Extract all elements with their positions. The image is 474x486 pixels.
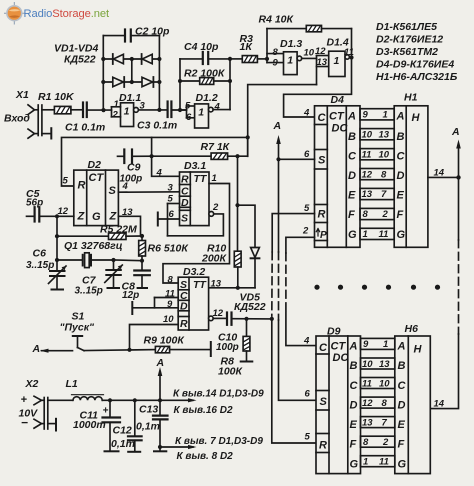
svg-text:G: G xyxy=(348,229,357,241)
svg-text:К выв.16 D2: К выв.16 D2 xyxy=(174,405,233,416)
chip D3.2 xyxy=(178,277,208,330)
gate D1.1 xyxy=(121,103,139,127)
svg-text:R9 100К: R9 100К xyxy=(144,335,186,347)
svg-text:X2: X2 xyxy=(25,378,39,390)
wire R4 right xyxy=(322,29,352,58)
wire node up to long wire xyxy=(151,137,153,156)
svg-text:13: 13 xyxy=(379,129,390,140)
svg-text:14: 14 xyxy=(434,399,445,410)
svg-text:1000m: 1000m xyxy=(73,419,106,431)
svg-text:D2: D2 xyxy=(88,159,102,171)
svg-text:1: 1 xyxy=(363,457,368,468)
capacitor C12 xyxy=(128,400,142,452)
svg-text:1: 1 xyxy=(334,55,340,67)
wire D1.1 out xyxy=(138,109,166,111)
svg-text:D: D xyxy=(350,399,358,411)
wire right A rail lower xyxy=(430,334,458,409)
wire feedback D1.4 input down xyxy=(248,85,317,157)
svg-text:D: D xyxy=(398,399,406,411)
wire C10 to R net xyxy=(232,318,272,320)
wire VD5 top xyxy=(238,205,256,247)
wire C-D fork with bar xyxy=(132,298,178,315)
node C11 xyxy=(108,398,112,402)
wire D4 S pin xyxy=(279,158,315,160)
terminal bar X1 bottom xyxy=(50,128,52,138)
svg-text:7: 7 xyxy=(382,417,388,428)
svg-text:S: S xyxy=(320,396,328,408)
capacitor C3 xyxy=(168,102,172,118)
svg-text:C12: C12 xyxy=(113,425,132,437)
node feedback-long wire xyxy=(246,135,250,139)
svg-text:D: D xyxy=(181,197,189,209)
svg-text:0,1m: 0,1m xyxy=(136,421,160,433)
svg-text:DC: DC xyxy=(332,123,349,135)
svg-text:C: C xyxy=(319,342,328,354)
svg-text:4: 4 xyxy=(214,102,221,113)
svg-text:13: 13 xyxy=(317,57,328,68)
wire D input fork xyxy=(168,204,180,236)
svg-text:C: C xyxy=(398,380,407,392)
node bridge br xyxy=(157,80,161,84)
svg-text:CТ: CТ xyxy=(329,111,345,123)
wire R rail dashed xyxy=(271,252,273,316)
svg-text:F: F xyxy=(398,439,405,451)
svg-text:13: 13 xyxy=(362,417,373,428)
svg-text:10: 10 xyxy=(379,378,390,389)
chip D3.1 xyxy=(180,172,210,226)
wire C4/R2 left rail xyxy=(179,59,181,110)
svg-text:S: S xyxy=(318,155,326,167)
inversion circle D3.1 pin2 xyxy=(209,212,214,217)
svg-text:D: D xyxy=(180,301,188,313)
svg-text:R: R xyxy=(181,174,189,186)
svg-text:S: S xyxy=(181,213,188,225)
wire pin13 D3.2 xyxy=(209,287,255,289)
wire A arrow power xyxy=(158,367,163,400)
wire long reset net xyxy=(62,137,248,186)
node reset rail xyxy=(270,317,274,321)
wire D4 P pin xyxy=(286,237,315,253)
svg-text:C: C xyxy=(348,151,357,163)
wire R rail to D9 R xyxy=(272,319,316,443)
svg-text:1: 1 xyxy=(114,99,119,110)
svg-text:3..15p: 3..15p xyxy=(26,260,54,271)
resistor R3 xyxy=(242,56,257,63)
wire R2 left xyxy=(180,80,200,82)
svg-text:1: 1 xyxy=(124,106,130,118)
svg-text:Н: Н xyxy=(414,344,423,356)
svg-text:10: 10 xyxy=(362,359,373,370)
svg-text:3: 3 xyxy=(168,183,174,194)
svg-text:Н1-Н6-АЛС321Б: Н1-Н6-АЛС321Б xyxy=(376,71,458,83)
svg-text:Н: Н xyxy=(412,112,421,124)
svg-text:56p: 56p xyxy=(26,198,43,209)
svg-text:B: B xyxy=(397,131,405,143)
svg-text:200К: 200К xyxy=(201,253,228,265)
svg-text:2: 2 xyxy=(382,209,389,220)
svg-text:R: R xyxy=(319,440,327,452)
wire R4 top xyxy=(267,28,306,30)
svg-text:F: F xyxy=(397,209,404,221)
wire right A rail arrow xyxy=(456,140,461,241)
arrow to pin14 supply xyxy=(188,398,197,402)
wire R2 right xyxy=(214,80,230,82)
wire power rail xyxy=(103,399,194,401)
node R6-C8 xyxy=(140,259,144,263)
svg-text:R6 510К: R6 510К xyxy=(148,243,190,255)
svg-text:10: 10 xyxy=(362,129,373,140)
pin fork D1.2 inputs xyxy=(180,106,195,118)
svg-text:12p: 12p xyxy=(122,290,139,301)
capacitor C8 xyxy=(134,261,150,288)
resistor R5 xyxy=(109,233,127,240)
wire R9 right with bar xyxy=(170,342,211,356)
chip D9 xyxy=(316,336,361,474)
output letters D4 xyxy=(347,111,357,242)
svg-text:КД522: КД522 xyxy=(64,54,96,66)
svg-text:4: 4 xyxy=(303,108,310,119)
svg-text:D4-D9-К176ИЕ4: D4-D9-К176ИЕ4 xyxy=(376,59,454,71)
svg-text:2: 2 xyxy=(302,226,309,237)
pin fork D1.1 inputs xyxy=(112,107,121,117)
capacitor C13 xyxy=(153,400,168,451)
svg-text:R: R xyxy=(78,180,86,192)
node R8 top xyxy=(244,317,248,321)
svg-text:R: R xyxy=(180,318,188,330)
capacitor C11 xyxy=(103,400,121,451)
svg-text:A: A xyxy=(156,357,165,369)
parts list xyxy=(376,21,458,83)
svg-text:11: 11 xyxy=(362,378,372,389)
svg-text:B: B xyxy=(350,360,358,372)
svg-text:C6: C6 xyxy=(33,248,47,260)
svg-text:8: 8 xyxy=(382,398,388,409)
node C13 xyxy=(158,398,162,402)
svg-text:CТ: CТ xyxy=(331,341,347,353)
svg-text:C: C xyxy=(397,151,406,163)
svg-text:100p: 100p xyxy=(216,342,239,353)
svg-text:13: 13 xyxy=(211,279,222,290)
connector X2 xyxy=(34,396,48,429)
diode VD5 xyxy=(251,248,260,288)
diode VD4 xyxy=(142,77,153,87)
node D1.4 out xyxy=(349,55,353,59)
svg-text:10: 10 xyxy=(304,48,315,59)
svg-text:Н1: Н1 xyxy=(404,92,418,104)
svg-text:12: 12 xyxy=(58,206,69,217)
trimmer C6 xyxy=(49,260,67,290)
node bridge tl xyxy=(101,57,105,61)
resistor R10 xyxy=(234,205,241,288)
node A rail D4 S xyxy=(276,157,280,161)
svg-text:C: C xyxy=(318,112,327,124)
quartz Q1 xyxy=(83,253,114,268)
resistor R2 xyxy=(200,78,214,85)
capacitor C1 xyxy=(83,103,87,118)
node C1-bridge xyxy=(101,108,105,112)
connector X1 xyxy=(28,105,42,138)
node C12 xyxy=(133,398,137,402)
svg-text:К выв. 8 D2: К выв. 8 D2 xyxy=(177,451,234,462)
svg-text:ТТ: ТТ xyxy=(194,173,208,185)
chip D4 xyxy=(315,106,361,248)
node quartz left xyxy=(55,258,59,262)
svg-text:A: A xyxy=(273,120,282,132)
svg-text:E: E xyxy=(398,419,406,431)
pin fork D1.3 inputs xyxy=(267,29,284,63)
capacitor C10 xyxy=(227,313,232,325)
wire pin2 feedback xyxy=(168,214,224,236)
continuation dots xyxy=(314,285,440,290)
svg-text:C3 0.1m: C3 0.1m xyxy=(137,120,177,132)
node C4-R3 xyxy=(228,57,232,61)
svg-text:A: A xyxy=(397,341,406,353)
node R10 bottom xyxy=(236,286,240,290)
svg-text:D: D xyxy=(397,170,405,182)
svg-text:X1: X1 xyxy=(15,89,29,101)
svg-text:1: 1 xyxy=(383,339,388,350)
node C9-R7 xyxy=(150,154,154,158)
svg-text:1: 1 xyxy=(363,229,368,240)
trimmer C7 xyxy=(105,260,123,288)
svg-text:Z: Z xyxy=(77,211,86,223)
svg-text:13: 13 xyxy=(122,207,133,218)
wire D4 clock feed xyxy=(284,58,352,118)
wire osc left rail xyxy=(56,216,58,260)
svg-text:D: D xyxy=(348,170,356,182)
svg-text:9: 9 xyxy=(363,110,369,121)
output letters D9 xyxy=(349,341,359,471)
svg-text:D1-К561ЛЕ5: D1-К561ЛЕ5 xyxy=(376,21,437,33)
svg-text:A: A xyxy=(347,111,356,123)
svg-text:D3.1: D3.1 xyxy=(184,160,206,172)
svg-text:6: 6 xyxy=(304,149,310,160)
gate D1.2 xyxy=(195,104,214,128)
svg-text:12: 12 xyxy=(362,398,373,409)
node C7 top xyxy=(111,258,115,262)
node R7-R10 xyxy=(235,154,239,158)
svg-text:R7 1К: R7 1К xyxy=(201,141,231,153)
wire bridge left rail xyxy=(102,36,104,111)
svg-text:R4 10К: R4 10К xyxy=(259,14,295,26)
svg-text:B: B xyxy=(398,360,406,372)
svg-text:C4 10p: C4 10p xyxy=(184,41,219,53)
node R2 right xyxy=(228,79,232,83)
diode VD2 xyxy=(142,54,153,64)
svg-text:+: + xyxy=(21,394,28,406)
svg-text:F: F xyxy=(350,439,357,451)
svg-text:D3-К561ТМ2: D3-К561ТМ2 xyxy=(376,46,438,58)
wire arrow to pin7 common xyxy=(160,445,197,449)
node R2 left xyxy=(178,79,182,83)
wire Z12 input xyxy=(57,215,74,217)
svg-text:Z: Z xyxy=(109,211,118,223)
svg-text:6: 6 xyxy=(305,389,311,400)
svg-text:"Пуск": "Пуск" xyxy=(60,322,96,334)
wire R7 right xyxy=(228,137,248,156)
capacitor C9 xyxy=(124,150,132,164)
resistor R1 xyxy=(54,106,71,113)
node pin10 junction xyxy=(127,348,131,352)
wire A arrow left xyxy=(40,349,73,353)
wire D1.2 out xyxy=(213,109,230,111)
svg-text:10: 10 xyxy=(379,149,390,160)
node R5 left xyxy=(55,234,59,238)
svg-text:D3.2: D3.2 xyxy=(183,266,205,278)
svg-text:RadioStorage.net: RadioStorage.net xyxy=(24,8,110,20)
svg-text:E: E xyxy=(348,190,356,202)
wire A rail arrow mid xyxy=(276,135,281,252)
svg-text:R5 22М: R5 22М xyxy=(100,224,137,236)
svg-text:A: A xyxy=(451,126,460,138)
node bridge bl xyxy=(101,80,105,84)
svg-text:9: 9 xyxy=(273,58,279,69)
svg-text:8: 8 xyxy=(363,209,369,220)
node bridge bm xyxy=(130,80,134,84)
svg-text:100К: 100К xyxy=(218,366,244,378)
svg-text:Вход: Вход xyxy=(4,113,30,125)
capacitor C4 xyxy=(203,52,208,64)
svg-text:C: C xyxy=(350,380,359,392)
node R3-D1.3 xyxy=(265,57,269,61)
svg-text:11: 11 xyxy=(362,149,372,160)
chip D2 xyxy=(74,170,119,226)
svg-text:R2 100К: R2 100К xyxy=(184,68,226,80)
svg-text:D2-К176ИЕ12: D2-К176ИЕ12 xyxy=(376,34,443,46)
svg-text:14: 14 xyxy=(434,168,445,179)
wire R input from switch xyxy=(130,325,179,350)
svg-text:−: − xyxy=(21,416,28,430)
svg-text:A: A xyxy=(396,111,405,123)
svg-text:E: E xyxy=(350,419,358,431)
wire bridge mid rail xyxy=(131,59,133,82)
wire bridge top row xyxy=(103,58,159,60)
svg-text:R1 10K: R1 10K xyxy=(38,91,75,103)
resistor R9 xyxy=(155,346,169,352)
svg-text:C2 10p: C2 10p xyxy=(135,26,170,38)
wire pin12 to C10 xyxy=(213,317,226,319)
node R10 top xyxy=(235,203,239,207)
svg-text:1: 1 xyxy=(287,55,293,67)
switch S1 xyxy=(73,336,84,351)
svg-text:12: 12 xyxy=(315,46,326,57)
svg-text:13: 13 xyxy=(362,189,373,200)
svg-text:КД522: КД522 xyxy=(234,301,266,313)
wire quartz row xyxy=(57,259,82,261)
wire R1 to C1 xyxy=(71,109,82,111)
svg-text:2: 2 xyxy=(382,437,389,448)
svg-text:8: 8 xyxy=(363,437,369,448)
svg-text:F: F xyxy=(348,209,355,221)
svg-text:S: S xyxy=(109,185,117,197)
node bridge tm xyxy=(130,57,134,61)
svg-text:5: 5 xyxy=(185,101,191,112)
svg-text:+: + xyxy=(103,406,109,417)
wire C4 left xyxy=(180,58,202,60)
svg-text:6: 6 xyxy=(186,112,192,123)
display H1 xyxy=(394,106,428,248)
wire X1 to R1 xyxy=(42,109,55,111)
capacitor C2 xyxy=(125,30,131,42)
svg-text:2: 2 xyxy=(112,110,119,121)
wire R7 left xyxy=(152,155,212,157)
wire X2 plus to L1 xyxy=(48,399,73,401)
wire C3 to D1.2 xyxy=(171,109,186,111)
svg-text:R: R xyxy=(318,209,326,221)
inductor L1 xyxy=(72,395,104,401)
svg-text:К выв. 7 D1,D3-D9: К выв. 7 D1,D3-D9 xyxy=(175,436,263,447)
svg-text:D4: D4 xyxy=(331,94,345,106)
svg-text:A: A xyxy=(32,343,41,355)
terminal bar X2 minus xyxy=(55,419,57,431)
capacitor C5 xyxy=(27,207,58,221)
svg-text:D9: D9 xyxy=(327,326,341,338)
svg-text:5: 5 xyxy=(63,176,69,187)
svg-text:A: A xyxy=(349,341,358,353)
diode VD3 xyxy=(113,77,124,87)
resistor R4 xyxy=(306,25,321,31)
svg-text:4: 4 xyxy=(303,336,310,347)
node C3-D1.2 xyxy=(178,108,182,112)
wire X1 bottom to bar xyxy=(42,133,51,135)
wire P rail to D9 C xyxy=(286,312,316,346)
wire C4 right xyxy=(208,58,230,60)
node bridge tr xyxy=(157,57,161,61)
segment wires D4-H1 xyxy=(360,109,394,240)
wire R3 left xyxy=(230,58,242,60)
svg-text:Q1 32768гц: Q1 32768гц xyxy=(64,240,123,252)
svg-text:1: 1 xyxy=(383,110,388,121)
node R5-R6 xyxy=(140,234,144,238)
wire D1.2 out rail xyxy=(229,59,231,110)
wire R5 right xyxy=(126,235,142,237)
wire C9 stub xyxy=(118,155,124,157)
node right A rail xyxy=(456,175,460,179)
svg-text:11: 11 xyxy=(379,229,389,240)
pin 4 D2 wire to D3.1 C xyxy=(118,191,179,193)
svg-text:C9: C9 xyxy=(127,162,141,174)
svg-text:C1 0.1m: C1 0.1m xyxy=(65,122,105,134)
wire R3 right xyxy=(257,58,267,60)
diode VD1 xyxy=(113,54,124,64)
svg-text:G: G xyxy=(350,459,359,471)
svg-text:D1.3: D1.3 xyxy=(280,38,302,50)
node common arrow xyxy=(158,445,162,449)
svg-text:100p: 100p xyxy=(120,174,143,185)
svg-text:C13: C13 xyxy=(139,404,158,416)
svg-text:10: 10 xyxy=(163,314,174,325)
wire D4 R pin xyxy=(272,214,314,252)
svg-text:C: C xyxy=(181,186,189,198)
pin fork D1.4 inputs xyxy=(317,56,329,85)
svg-text:8: 8 xyxy=(273,47,279,58)
svg-text:DC: DC xyxy=(333,352,350,364)
wire node down to R pin D3.1 xyxy=(152,156,180,176)
svg-text:Н6: Н6 xyxy=(405,323,419,335)
wire A rail dashed xyxy=(278,252,280,320)
wire pin1 to D3.2 S xyxy=(163,184,230,284)
display H6 xyxy=(395,336,431,474)
svg-text:D1.1: D1.1 xyxy=(119,92,141,104)
resistor R8 xyxy=(241,319,253,362)
wire A rail to D9 S xyxy=(279,320,317,400)
segment pin numbers D9-H6 xyxy=(362,339,390,467)
gate D1.4 xyxy=(329,51,350,76)
wire C2 right xyxy=(131,35,160,37)
wire right A rail dashed xyxy=(458,240,460,334)
svg-text:G: G xyxy=(397,229,406,241)
svg-text:К выв.14 D1,D3-D9: К выв.14 D1,D3-D9 xyxy=(173,389,264,400)
